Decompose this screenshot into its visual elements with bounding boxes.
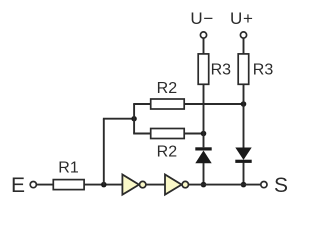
wire R2 top to U+ rail <box>184 103 243 105</box>
svg-text:R2: R2 <box>157 80 178 97</box>
junction R2 bottom on U- rail <box>201 131 207 137</box>
label E <box>11 174 25 197</box>
junction D2 on output wire <box>241 182 247 188</box>
wire stub to R2 top <box>133 103 151 105</box>
label R1 <box>58 160 79 177</box>
terminal U- <box>200 32 206 38</box>
resistor R3 right <box>238 54 249 84</box>
terminal U+ <box>240 32 246 38</box>
wire U2 to S <box>189 184 261 186</box>
label R3 left <box>211 62 232 79</box>
svg-text:E: E <box>11 174 25 197</box>
junction R2 top on U+ rail <box>241 101 247 107</box>
terminal E <box>30 182 36 188</box>
resistor R3 left <box>198 54 209 84</box>
resistor R2 bottom <box>151 129 185 139</box>
wire D2 to output node <box>243 163 245 185</box>
wire D1 to output node <box>203 163 205 185</box>
label R2 top <box>157 80 178 97</box>
label U- <box>190 9 214 28</box>
junction node at R1 output <box>101 182 107 188</box>
junction R2 bracket <box>131 116 136 121</box>
wire R2 bracket vertical <box>133 104 135 134</box>
svg-text:U+: U+ <box>230 9 254 28</box>
wire U1 to U2 <box>146 184 165 186</box>
svg-text:R1: R1 <box>58 160 79 177</box>
label U+ <box>230 9 254 28</box>
resistor R2 top <box>151 99 185 109</box>
wire node up to feedback <box>103 119 105 186</box>
wire R2 bottom to U- rail <box>184 133 203 135</box>
svg-text:S: S <box>274 174 288 197</box>
resistor R1 <box>53 180 84 190</box>
label R2 bottom <box>157 143 178 160</box>
diode D1 (cathode up) <box>195 147 211 163</box>
wire U+ to R3 right <box>243 39 245 54</box>
wire U- to R3 left <box>203 39 205 54</box>
svg-text:R3: R3 <box>211 62 232 79</box>
svg-text:R2: R2 <box>157 143 178 160</box>
wire R1 to inverter <box>84 184 122 186</box>
label R3 right <box>253 62 274 79</box>
wire E to R1 <box>37 184 54 186</box>
label S <box>274 174 288 197</box>
wire R3 left to diode D1 <box>203 84 205 147</box>
wire feedback horizontal <box>103 118 134 120</box>
wire R3 right to diode D2 <box>243 84 245 147</box>
diode D2 (cathode down) <box>235 148 251 163</box>
inverter U1 <box>122 175 145 195</box>
terminal S <box>261 182 267 188</box>
junction D1 on output wire <box>201 182 207 188</box>
inverter U2 <box>165 175 189 195</box>
svg-text:U−: U− <box>190 9 214 28</box>
svg-text:R3: R3 <box>253 62 274 79</box>
wire stub to R2 bottom <box>133 133 151 135</box>
